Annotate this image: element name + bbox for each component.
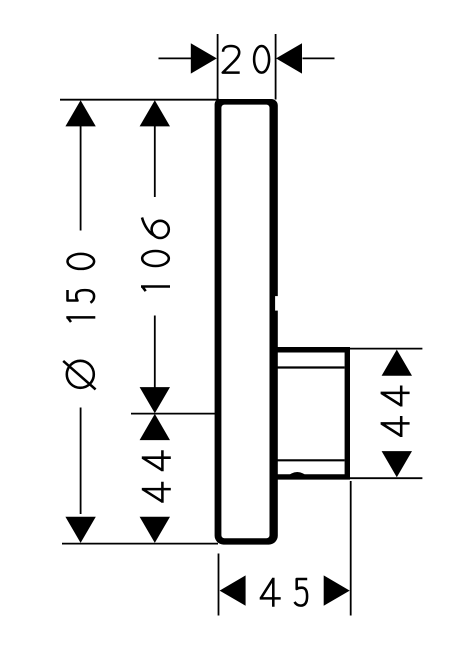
- dim 44 right: bottom ext line: [350, 477, 422, 479]
- dim 44 right: top ext line: [350, 348, 422, 350]
- dim 150: bottom arrow: [65, 517, 95, 543]
- dim 150: lower line: [80, 408, 82, 515]
- dim 45: left arrow: [220, 575, 246, 605]
- dim 150: top arrow: [65, 100, 95, 126]
- valve body inner line bottom: [277, 459, 345, 461]
- dim 106: lower line: [154, 316, 156, 388]
- notch between handle and plate edge on right profile: [275, 296, 279, 311]
- dim 44 right: label "44" rotated: [381, 386, 410, 407]
- dim 20: label "20": [223, 46, 240, 73]
- dim 106: top arrow: [140, 100, 170, 126]
- dim 150: upper line: [80, 126, 82, 231]
- dim 20: left arrow: [191, 43, 217, 73]
- dim 44 right: bottom arrow: [382, 451, 412, 477]
- small clip bump on valve body bottom edge: [286, 472, 310, 478]
- dim 20: left ext line: [217, 34, 219, 100]
- dim 20: right ext line: [275, 34, 277, 100]
- dim 106: label "106" rotated: [142, 218, 169, 239]
- bottom extension line: [62, 543, 218, 545]
- mid reference line (valve centre): [131, 413, 217, 415]
- dim 44 left: top arrow: [140, 414, 170, 440]
- dim 45: right arrow: [324, 575, 350, 605]
- dim 45: right ext line: [350, 481, 352, 616]
- dim 106: upper line: [154, 126, 156, 197]
- dim 44 left: bottom arrow: [140, 517, 170, 543]
- dim 44 left: label "44" rotated: [142, 450, 171, 471]
- dim 20: right tail: [303, 57, 335, 59]
- dim 150: label "Ø 150" rotated: [68, 254, 95, 269]
- dim 20: right arrow: [276, 43, 302, 73]
- top extension line: [60, 99, 219, 101]
- dim 45: label "45": [260, 578, 281, 607]
- dim 45: left ext line: [218, 554, 220, 616]
- valve body (side view): [272, 350, 347, 477]
- dim 20: left tail: [159, 57, 193, 59]
- dim 106: bottom arrow: [140, 387, 170, 413]
- dim 44 right: top arrow: [382, 350, 412, 376]
- valve body inner line top: [277, 366, 345, 368]
- escutcheon plate (side view, thick outline): [215, 99, 278, 545]
